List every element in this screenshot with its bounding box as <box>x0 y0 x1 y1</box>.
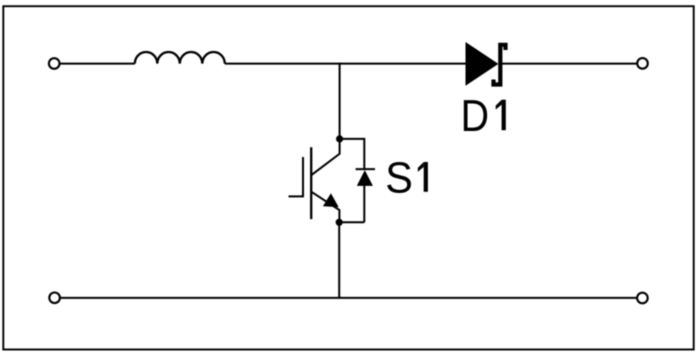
igbt S1: body bar <box>310 147 312 219</box>
svg-text:S: S <box>385 155 413 203</box>
wire: input terminal to inductor <box>60 63 135 65</box>
igbt S1: emitter arrow <box>323 193 339 207</box>
antiparallel diode of S1: triangle <box>357 170 373 186</box>
diode D1 cathode bar (Schottky hooks) <box>494 45 506 85</box>
igbt S1: gate bar <box>302 157 304 197</box>
antiparallel diode of S1: cathode bar <box>356 168 375 170</box>
svg-text:D: D <box>461 90 489 141</box>
label D1 <box>461 90 506 141</box>
wire: antiparallel diode branch to emitter node <box>339 221 364 223</box>
wire: bottom rail <box>60 297 637 299</box>
label S1 <box>385 155 428 203</box>
wire: antiparallel diode branch lower <box>363 186 365 223</box>
node: output terminal - (bottom-right) <box>637 293 648 304</box>
igbt S1: collector lead <box>311 139 339 175</box>
junction: collector node <box>336 135 343 142</box>
wire: emitter node to bottom rail <box>338 222 340 298</box>
diode D1 (Schottky) anode triangle <box>466 42 499 86</box>
node: input terminal - (bottom-left) <box>49 293 60 304</box>
wire: collector node to antiparallel diode branch <box>340 138 365 140</box>
igbt S1: emitter lead <box>311 192 339 223</box>
igbt S1: gate lead <box>289 195 304 197</box>
inductor L1 <box>135 52 225 64</box>
node: input terminal + (top-left) <box>49 58 60 69</box>
wire: switch node vertical drop <box>339 63 341 139</box>
junction: emitter node <box>336 219 343 226</box>
wire: diode D1 to output terminal <box>502 63 637 65</box>
wire: inductor to diode D1 (through switch node) <box>225 63 466 65</box>
wire: antiparallel diode branch upper <box>363 138 365 170</box>
node: output terminal + (top-right) <box>637 58 648 69</box>
